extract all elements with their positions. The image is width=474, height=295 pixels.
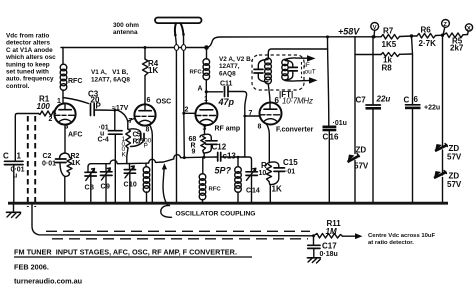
resistor R1 100 (grid) — [37, 95, 56, 117]
resistor R11 1M — [314, 219, 363, 239]
tuning gang dashed link — [28, 116, 35, 207]
svg-text:1: 1 — [17, 152, 22, 161]
RFC choke (RF tank) — [199, 157, 221, 202]
variable capacitor C10 — [124, 164, 137, 202]
C16 column from rail — [323, 35, 347, 202]
svg-text:8: 8 — [90, 185, 94, 192]
svg-text:+58V: +58V — [338, 27, 360, 37]
FT1 primary coil — [265, 58, 280, 105]
svg-text:V1 A, V1 B,: V1 A, V1 B, — [91, 69, 128, 76]
svg-text:control.: control. — [6, 83, 30, 90]
svg-text:12AT7, 6AQ8: 12AT7, 6AQ8 — [91, 77, 130, 84]
svg-text:R7: R7 — [383, 27, 394, 36]
ground symbol (main) — [7, 205, 21, 219]
svg-text:c13: c13 — [223, 152, 237, 161]
svg-text:OSCILLATOR COUPLING: OSCILLATOR COUPLING — [176, 211, 256, 218]
svg-text:R8: R8 — [382, 64, 393, 73]
svg-text:detector alters: detector alters — [6, 40, 50, 47]
svg-text:C at V1A anode: C at V1A anode — [6, 47, 53, 54]
svg-text:1: 1 — [204, 96, 208, 103]
svg-text:C: C — [404, 96, 410, 105]
resistor R3 100K (osc grid leak) — [115, 110, 131, 163]
svg-text:K: K — [122, 152, 127, 159]
svg-text:RFC: RFC — [68, 78, 82, 85]
svg-text:10·7MHz: 10·7MHz — [282, 97, 313, 106]
svg-text:·01: ·01 — [285, 169, 295, 176]
svg-text:RF amp: RF amp — [215, 126, 241, 133]
svg-text:C: C — [323, 133, 329, 142]
antenna lead A (left, to ground) — [175, 35, 176, 202]
svg-text:8: 8 — [146, 127, 150, 134]
svg-text:57V: 57V — [447, 180, 462, 189]
svg-text:F.converter: F.converter — [276, 127, 314, 134]
svg-text:C: C — [124, 182, 129, 189]
svg-text:6AQ8: 6AQ8 — [219, 70, 236, 77]
B+ feed to FT1 primary — [268, 49, 327, 58]
svg-text:C11: C11 — [220, 81, 233, 88]
triode V2A RF amp — [184, 96, 240, 135]
node Z circle — [442, 20, 450, 36]
oscillator coupling arrow — [161, 163, 256, 217]
svg-text:R: R — [261, 161, 267, 170]
node A — [198, 86, 208, 94]
svg-text:9: 9 — [106, 184, 110, 191]
svg-text:auto. frequency: auto. frequency — [6, 76, 54, 83]
svg-text:RFC: RFC — [209, 187, 222, 193]
R8 1k row — [355, 53, 412, 73]
svg-text:7: 7 — [249, 110, 253, 117]
wire B+ main rail — [61, 37, 339, 48]
svg-text:16: 16 — [330, 133, 339, 142]
column from rail with ZD 57V — [348, 37, 369, 202]
svg-text:C15: C15 — [283, 158, 298, 167]
rail junction at V — [372, 35, 375, 38]
svg-text:·01u: ·01u — [333, 120, 347, 127]
node X circle — [465, 24, 472, 35]
FT1 secondary tuning cap — [285, 61, 297, 80]
rail junction R7/R6 — [410, 34, 413, 37]
rail junction R6/R5 — [441, 34, 444, 37]
svg-text:C: C — [246, 188, 251, 195]
svg-text:8: 8 — [258, 124, 262, 131]
junction R4 tap — [144, 46, 147, 49]
resistor R6 2.7K — [412, 26, 443, 49]
capacitor C1 0.01u (left) — [3, 152, 25, 203]
oscillator coil L2 — [143, 163, 150, 202]
svg-text:300 ohm: 300 ohm — [113, 22, 139, 29]
svg-text:R2: R2 — [71, 153, 80, 160]
svg-text:2: 2 — [185, 107, 189, 114]
svg-text:10: 10 — [259, 170, 267, 177]
svg-text:57V: 57V — [447, 153, 462, 162]
node V circle — [371, 23, 379, 37]
hop rings where antenna leads cross rail — [174, 45, 178, 51]
capacitor C13 5p — [215, 152, 237, 176]
triode V1B OSC — [128, 97, 171, 202]
svg-text:1K5: 1K5 — [382, 40, 397, 49]
svg-text:2·7K: 2·7K — [419, 39, 437, 48]
svg-text:FEB 2006.: FEB 2006. — [14, 263, 49, 272]
svg-text:10: 10 — [129, 182, 137, 189]
title text — [14, 248, 252, 286]
column C7 22u — [356, 35, 391, 202]
svg-text:AFC: AFC — [68, 132, 82, 139]
svg-text:R6: R6 — [421, 26, 432, 35]
svg-text:V2 A, V2 B,: V2 A, V2 B, — [219, 56, 253, 63]
triode V2B F.converter — [243, 103, 313, 163]
ground bus — [8, 202, 448, 205]
junction lead B on tank — [183, 156, 186, 159]
svg-text:1K: 1K — [272, 185, 282, 194]
wire grid to left column — [15, 114, 38, 161]
FT1 IF transformer dashed can — [252, 55, 304, 90]
svg-text:1: 1 — [57, 98, 61, 105]
triode V1A (AFC) — [49, 98, 83, 139]
resistor R7 1K5 — [381, 27, 412, 50]
svg-text:2k7: 2k7 — [450, 44, 464, 53]
capacitor C17 0.18u — [308, 234, 338, 258]
AFC feedback line from bus — [32, 205, 314, 236]
label V1 tubes — [91, 69, 130, 84]
wire tank to C13 right — [221, 156, 243, 158]
svg-text:u: u — [13, 173, 17, 180]
junction grid lead B — [182, 112, 185, 115]
svg-text:turneraudio.com.au: turneraudio.com.au — [14, 277, 82, 286]
svg-text:0·18u: 0·18u — [320, 251, 338, 258]
tank wire (tuned circuits bus) — [91, 155, 217, 164]
antenna AE — [155, 18, 202, 37]
dashed feedback pair — [46, 231, 310, 239]
svg-text:6: 6 — [147, 97, 151, 104]
capacitor C3 20p (AFC coupling) — [63, 90, 114, 116]
svg-text:22u: 22u — [376, 95, 391, 104]
svg-text:A: A — [198, 86, 203, 93]
svg-text:14: 14 — [252, 188, 260, 195]
svg-text:3: 3 — [203, 125, 207, 132]
svg-text:antenna: antenna — [113, 29, 138, 36]
svg-text:RFC: RFC — [190, 70, 203, 76]
svg-text:set tuned with: set tuned with — [6, 69, 49, 76]
node -17V — [113, 109, 116, 112]
svg-text:C12: C12 — [212, 143, 227, 152]
junction RF cathode node — [203, 156, 206, 159]
svg-text:P: P — [96, 102, 102, 111]
cathode bypass C2 0.01 and R2 1K — [42, 125, 80, 202]
svg-text:1K: 1K — [72, 160, 81, 167]
svg-text:C2: C2 — [43, 153, 52, 160]
note text top-left — [5, 33, 56, 90]
svg-text:5P?: 5P? — [215, 166, 232, 176]
svg-text:1K: 1K — [148, 66, 158, 75]
svg-text:9: 9 — [192, 149, 196, 156]
svg-text:P: P — [144, 143, 148, 150]
svg-text:C7: C7 — [356, 96, 367, 105]
svg-text:0·01: 0·01 — [42, 161, 56, 168]
svg-text:FM TUNER INPUT STAGES, AFC, O: FM TUNER INPUT STAGES, AFC, OSC, RF AMP,… — [14, 248, 237, 257]
svg-text:12AT7,: 12AT7, — [219, 63, 240, 70]
svg-text:C: C — [3, 152, 9, 161]
RFC choke (V1A anode) — [60, 48, 82, 105]
RFC choke (RF amp anode) — [190, 48, 210, 104]
svg-text:Centre Vdc across 10uF: Centre Vdc across 10uF — [368, 233, 436, 239]
svg-text:+22u: +22u — [424, 105, 440, 112]
svg-text:ZD: ZD — [356, 146, 367, 155]
svg-text:7: 7 — [129, 118, 133, 125]
svg-text:OSC: OSC — [156, 99, 171, 106]
svg-text:which alters osc: which alters osc — [5, 54, 56, 61]
variable capacitor C14 — [243, 157, 260, 202]
resistor R4 1k (osc anode load) — [143, 48, 159, 104]
column C6 +22u — [404, 36, 441, 202]
label 300 ohm antenna — [113, 22, 139, 36]
svg-text:C-4: C-4 — [98, 137, 109, 144]
svg-text:2: 2 — [49, 116, 53, 123]
svg-text:100: 100 — [37, 102, 51, 111]
svg-text:57V: 57V — [354, 162, 369, 171]
svg-text:ouT: ouT — [305, 69, 316, 76]
svg-text:C: C — [85, 185, 90, 192]
svg-text:1M: 1M — [326, 227, 337, 236]
column with two ZD 57V — [434, 35, 462, 202]
svg-text:C: C — [101, 184, 106, 191]
capacitor C5 100p (osc grid) — [129, 129, 152, 150]
svg-text:Vdc from ratio: Vdc from ratio — [6, 33, 49, 40]
IF out arrows — [285, 55, 318, 83]
variable capacitor C9 — [101, 164, 113, 202]
variable capacitor C8 — [85, 164, 97, 202]
svg-text:at ratio detector.: at ratio detector. — [368, 240, 414, 246]
label V2 tubes — [219, 56, 253, 77]
FT1 labels — [279, 90, 313, 106]
antenna lead B (right, to grid and tank) — [183, 35, 186, 158]
ground symbol (C17) — [308, 258, 321, 263]
R10 1K with C15 .01 (converter cathode) — [259, 158, 299, 202]
capacitor C11 47p (osc injection) — [206, 81, 246, 158]
svg-text:6: 6 — [414, 95, 419, 104]
FT1 primary tuning cap — [254, 60, 268, 82]
svg-text:Z: Z — [443, 22, 447, 28]
R9 68 with C12 (RF cathode) — [189, 134, 227, 157]
FT1 secondary coil — [282, 59, 288, 80]
capacitor C4 0.01u — [98, 110, 123, 202]
svg-text:47p: 47p — [218, 97, 235, 107]
svg-text:C17: C17 — [322, 242, 337, 251]
resistor R5 2k7 — [443, 33, 468, 53]
svg-text:tuning to keep: tuning to keep — [6, 61, 50, 68]
note centre Vdc — [368, 233, 436, 246]
converter grid coil L3 — [235, 156, 242, 202]
junction RFC2 tap — [204, 45, 209, 50]
wire rail V to R7 — [339, 36, 381, 38]
